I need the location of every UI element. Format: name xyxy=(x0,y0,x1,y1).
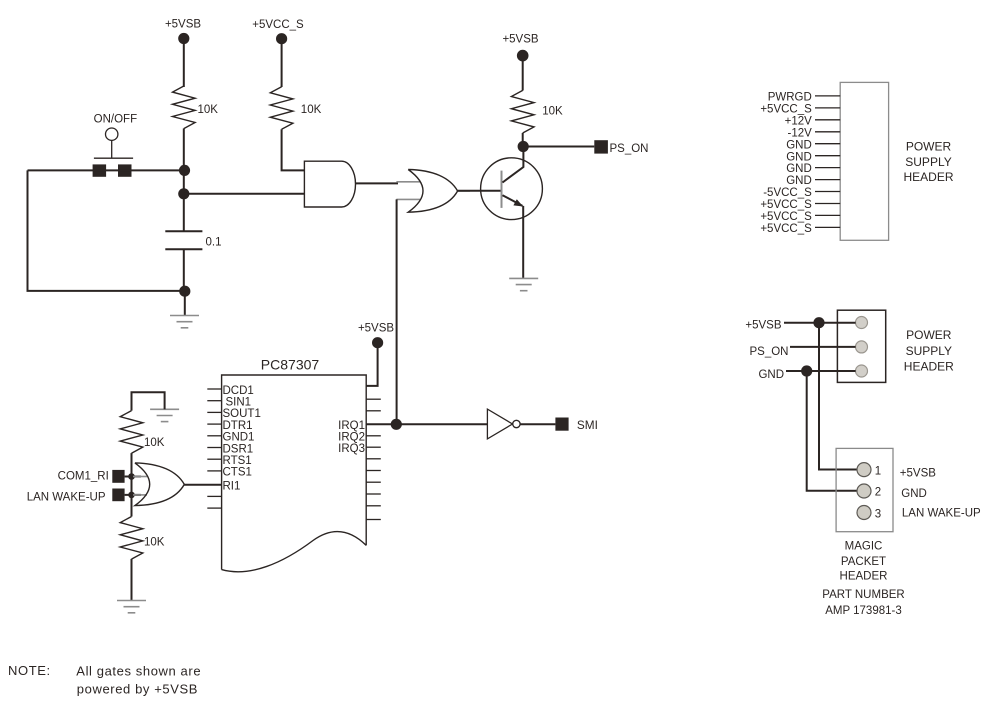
junction dot IRQ1 xyxy=(391,419,402,430)
ground (top of RI pullup) xyxy=(150,409,179,421)
wire into chip xyxy=(366,346,377,386)
wire COM1_RI to OR xyxy=(125,476,141,478)
svg-text:3: 3 xyxy=(875,508,881,520)
svg-text:POWER: POWER xyxy=(906,328,952,342)
power supply header J2 body xyxy=(837,310,885,382)
power dot xyxy=(372,337,383,348)
svg-text:GND1: GND1 xyxy=(223,432,255,444)
ground under Q1 xyxy=(509,278,538,290)
svg-text:PWRGD: PWRGD xyxy=(768,92,812,104)
svg-text:0.1: 0.1 xyxy=(206,237,222,249)
transistor base bar xyxy=(501,171,503,208)
junction dot xyxy=(178,188,189,199)
ground xyxy=(170,316,199,328)
svg-text:GND: GND xyxy=(786,175,812,187)
wire to AND input xyxy=(282,129,305,170)
wire xyxy=(183,170,185,193)
svg-text:IRQ2: IRQ2 xyxy=(338,431,365,443)
AND gate U1 xyxy=(304,161,355,207)
wire +5VSB down to J3 xyxy=(819,323,857,470)
svg-text:+5VSB: +5VSB xyxy=(502,34,538,46)
power supply header J1 body xyxy=(840,82,888,240)
svg-text:SOUT1: SOUT1 xyxy=(223,408,261,420)
capacitor C1 plate top xyxy=(165,230,202,232)
switch bar xyxy=(94,157,133,159)
svg-text:COM1_RI: COM1_RI xyxy=(58,471,109,483)
wire OR lower input vertical xyxy=(396,199,398,424)
wire xyxy=(522,133,524,147)
emitter arrowhead xyxy=(513,199,523,206)
IC U4 body xyxy=(222,375,367,570)
svg-text:AMP 173981-3: AMP 173981-3 xyxy=(825,605,902,617)
wire xyxy=(183,249,185,291)
wire xyxy=(184,291,186,315)
svg-text:DTR1: DTR1 xyxy=(223,420,253,432)
svg-text:GND: GND xyxy=(758,369,784,381)
svg-text:RTS1: RTS1 xyxy=(223,455,252,467)
wire OR output to RI1 xyxy=(184,484,222,486)
svg-text:IRQ3: IRQ3 xyxy=(338,443,365,455)
wire inverter to SMI xyxy=(520,423,555,425)
wire xyxy=(183,42,185,87)
svg-text:SUPPLY: SUPPLY xyxy=(905,155,951,169)
svg-text:10K: 10K xyxy=(144,437,165,449)
svg-text:HEADER: HEADER xyxy=(904,360,954,374)
ground xyxy=(117,601,146,613)
magic packet header J3 body xyxy=(836,448,893,531)
resistor R3 xyxy=(511,90,534,133)
svg-text:1: 1 xyxy=(875,465,881,477)
wire xyxy=(522,59,524,91)
power dot +5VCC_S xyxy=(276,33,287,44)
svg-text:+5VSB: +5VSB xyxy=(745,320,781,332)
resistor R5 xyxy=(120,517,143,560)
svg-text:GND: GND xyxy=(901,488,927,500)
svg-text:PC87307: PC87307 xyxy=(261,356,320,372)
OR gate U2 xyxy=(408,170,457,213)
transistor collector xyxy=(503,147,524,183)
switch contact right xyxy=(118,164,132,176)
wire loop left xyxy=(28,170,185,291)
resistor R2 xyxy=(270,87,293,130)
switch actuator circle xyxy=(106,128,118,140)
terminal SMI xyxy=(555,418,568,431)
junction dot collector xyxy=(518,141,529,152)
junction dot small xyxy=(128,492,135,499)
svg-text:MAGIC: MAGIC xyxy=(845,540,883,552)
power dot +5VSB xyxy=(178,33,189,44)
svg-text:PACKET: PACKET xyxy=(841,556,886,568)
J2 title xyxy=(904,328,954,374)
wire switch row xyxy=(28,169,185,171)
terminal PS_ON xyxy=(594,140,608,153)
svg-text:LAN WAKE-UP: LAN WAKE-UP xyxy=(902,508,981,520)
svg-text:NOTE:: NOTE: xyxy=(8,663,51,678)
wire AND output xyxy=(356,182,399,184)
svg-text:ON/OFF: ON/OFF xyxy=(94,114,137,126)
transistor emitter xyxy=(503,195,523,206)
OR gate U3 xyxy=(135,463,184,506)
junction dot +5VSB xyxy=(813,317,824,328)
svg-text:10K: 10K xyxy=(198,104,219,116)
svg-text:DCD1: DCD1 xyxy=(223,385,254,397)
IC U4 torn bottom edge xyxy=(222,532,367,572)
svg-text:PS_ON: PS_ON xyxy=(750,346,789,358)
svg-text:10K: 10K xyxy=(144,537,165,549)
J3 pin circles xyxy=(857,463,871,520)
resistor R4 xyxy=(120,411,143,454)
OR gate U3 input stubs xyxy=(133,477,147,495)
wire xyxy=(131,453,133,516)
svg-text:+5VSB: +5VSB xyxy=(900,467,936,479)
terminal LAN WAKE-UP xyxy=(112,489,124,502)
wire GND down to J3 xyxy=(807,371,858,491)
wire xyxy=(131,559,133,601)
wire PS_ON xyxy=(790,346,856,348)
J1 pin labels xyxy=(760,92,812,236)
transistor Q1 circle xyxy=(481,158,543,220)
switch contact left xyxy=(93,164,107,176)
wire xyxy=(183,129,185,171)
svg-text:powered by +5VSB: powered by +5VSB xyxy=(77,681,198,696)
wire emitter down xyxy=(522,206,524,279)
svg-text:10K: 10K xyxy=(301,104,322,116)
junction dot small xyxy=(128,473,135,480)
wire OR output to base xyxy=(458,190,502,192)
OR gate U2 input stubs xyxy=(396,182,470,200)
svg-text:CTS1: CTS1 xyxy=(223,467,252,479)
svg-text:IRQ1: IRQ1 xyxy=(338,420,365,432)
inverter bubble xyxy=(513,420,520,427)
svg-text:+5VCC_S: +5VCC_S xyxy=(760,211,812,223)
svg-text:10K: 10K xyxy=(542,106,563,118)
J1 title xyxy=(903,139,953,184)
svg-text:+5VCC_S: +5VCC_S xyxy=(760,104,812,116)
svg-text:PART NUMBER: PART NUMBER xyxy=(822,589,904,601)
inverter U5 xyxy=(487,409,512,439)
svg-text:All gates shown are: All gates shown are xyxy=(76,663,201,678)
wire IRQ1 to inverter xyxy=(366,423,487,425)
svg-text:-5VCC_S: -5VCC_S xyxy=(763,187,812,199)
junction dot xyxy=(179,165,190,176)
svg-text:RI1: RI1 xyxy=(223,481,241,493)
right pin stubs xyxy=(366,399,381,519)
svg-text:+5VCC_S: +5VCC_S xyxy=(760,223,812,235)
wire +5VSB xyxy=(784,322,856,324)
power dot xyxy=(517,50,529,62)
junction dot GND xyxy=(801,365,812,376)
wire pullup top xyxy=(132,392,165,410)
svg-text:2: 2 xyxy=(875,487,881,499)
svg-text:SIN1: SIN1 xyxy=(226,397,252,409)
svg-text:+5VSB: +5VSB xyxy=(358,323,394,335)
resistor R1 xyxy=(173,86,196,129)
svg-text:LAN WAKE-UP: LAN WAKE-UP xyxy=(27,491,106,503)
terminal COM1_RI xyxy=(112,470,124,483)
svg-text:GND: GND xyxy=(786,163,812,175)
wire to AND input lower xyxy=(184,193,305,195)
J1 pin lines xyxy=(815,96,840,228)
J2 pin circles xyxy=(856,317,868,378)
svg-text:+5VCC_S: +5VCC_S xyxy=(760,199,812,211)
svg-text:GND: GND xyxy=(786,151,812,163)
left pin stubs xyxy=(207,389,221,508)
junction dot xyxy=(179,286,190,297)
svg-text:+5VSB: +5VSB xyxy=(165,19,201,31)
wire xyxy=(183,194,185,232)
capacitor C1 plate bottom xyxy=(165,248,202,250)
svg-text:PS_ON: PS_ON xyxy=(610,143,649,155)
svg-text:+5VCC_S: +5VCC_S xyxy=(252,19,304,31)
svg-text:-12V: -12V xyxy=(788,127,813,139)
svg-text:SUPPLY: SUPPLY xyxy=(906,344,952,358)
svg-text:SMI: SMI xyxy=(577,418,598,432)
svg-text:DSR1: DSR1 xyxy=(223,443,254,455)
svg-text:+12V: +12V xyxy=(785,115,813,127)
wire xyxy=(281,42,283,87)
wire to PS_ON xyxy=(523,146,594,148)
J3 caption xyxy=(822,540,904,617)
svg-text:GND: GND xyxy=(786,139,812,151)
wire LAN to OR xyxy=(125,494,141,496)
svg-text:HEADER: HEADER xyxy=(903,170,953,184)
svg-text:HEADER: HEADER xyxy=(840,571,888,583)
switch stem xyxy=(111,140,113,158)
svg-text:POWER: POWER xyxy=(906,139,952,153)
wire GND xyxy=(786,370,856,372)
